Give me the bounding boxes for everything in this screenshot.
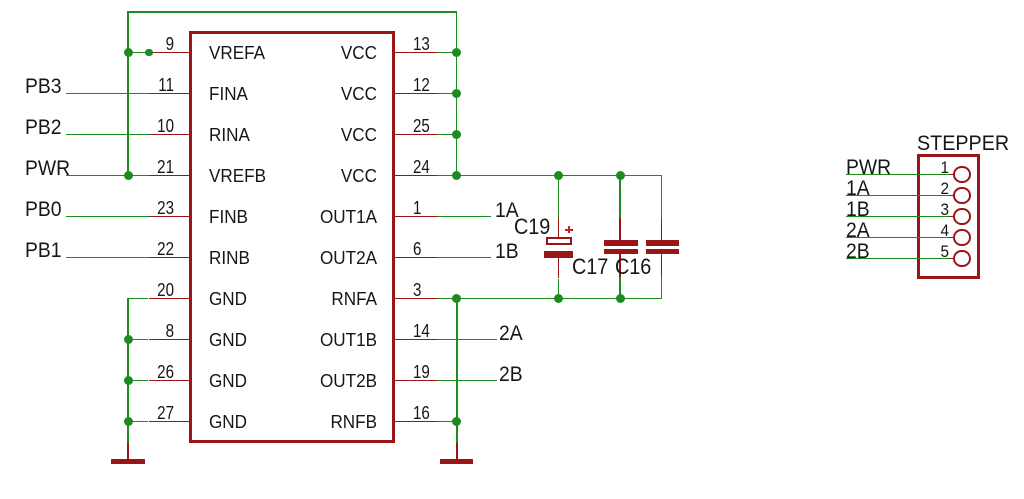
wire PWR to pin21 [66, 175, 149, 177]
stepper pin stub 1 [949, 174, 954, 176]
wire RNF vertical [456, 298, 458, 443]
stepper wire 1B [846, 216, 949, 218]
pin 23 (FINB) stub [149, 216, 191, 218]
stepper pin stub 5 [949, 258, 954, 260]
junction VCC at C19 [554, 171, 563, 180]
stepper net label 2A [846, 220, 870, 241]
stepper wire PWR [846, 174, 949, 176]
label C16 [615, 256, 651, 278]
C19 plus sign [565, 229, 573, 231]
stepper net label PWR [846, 157, 891, 178]
wire pin25 to vertical [437, 134, 457, 136]
pin name VCC [301, 44, 377, 62]
wire C19 bottom [558, 279, 560, 299]
stepper pin number 3 [877, 201, 949, 218]
wire pin8 to bus [128, 339, 148, 341]
pin 13 (VCC) stub [394, 52, 437, 54]
wire PWR top horizontal [127, 11, 457, 13]
net label 1A [495, 200, 519, 221]
junction GND pin27 [124, 417, 133, 426]
IC U1 box (L6219 driver) [189, 31, 396, 443]
wire pin27 to bus [128, 421, 148, 423]
stepper pin number 1 [877, 159, 949, 176]
stepper wire 2A [846, 237, 949, 239]
stepper pin number 2 [877, 180, 949, 197]
pin name VREFB [209, 167, 266, 185]
junction GND pin8 [124, 335, 133, 344]
stepper net label 2B [846, 241, 870, 262]
wire pin13 to vertical [437, 52, 457, 54]
pin name OUT2B [301, 372, 377, 390]
pin 6 (OUT2A) stub [394, 257, 437, 259]
pin number 19 [413, 363, 430, 381]
pin number 11 [106, 76, 173, 94]
junction RNF at C17 [616, 294, 625, 303]
wire OUT2A [437, 257, 492, 259]
pin 10 (RINA) stub [149, 134, 191, 136]
pin number 3 [413, 281, 421, 299]
pin 9 (VREFA) stub [149, 52, 191, 54]
net label 2B [499, 364, 523, 385]
wire C16 top [661, 175, 663, 218]
pin name RNFB [301, 413, 377, 431]
pin 14 (OUT1B) stub [394, 339, 437, 341]
wire C17 bottom [619, 277, 621, 298]
wire PB2 [66, 134, 149, 136]
pin number 8 [106, 322, 173, 340]
pin number 6 [413, 240, 421, 258]
connector STEPPER box [917, 154, 981, 279]
pin 20 (GND) stub [149, 298, 191, 300]
pin number 10 [106, 117, 173, 135]
ground symbol left [127, 443, 129, 459]
stepper wire 2B [846, 258, 949, 260]
pin number 21 [106, 158, 173, 176]
net label 2A [499, 323, 523, 344]
stepper pin number 5 [877, 243, 949, 260]
junction RNF at C19 [554, 294, 563, 303]
junction VCC pin13 [452, 48, 461, 57]
pin 8 (GND) stub [149, 339, 191, 341]
stepper pin circle 1 [953, 166, 971, 184]
stepper pin circle 3 [953, 208, 971, 226]
junction at pin9/vertical [124, 48, 133, 57]
pin 11 (FINA) stub [149, 93, 191, 95]
stepper pin circle 4 [953, 229, 971, 247]
net label PB1 [25, 240, 62, 261]
junction VCC pin25 [452, 130, 461, 139]
label STEPPER [917, 133, 1009, 154]
wire PB0 [66, 216, 149, 218]
pin 21 (VREFB) stub [149, 175, 191, 177]
junction at pin9 connection [145, 49, 153, 57]
junction VCC at C17 [616, 171, 625, 180]
pin number 14 [413, 322, 430, 340]
wire PWR left vertical [127, 12, 129, 176]
wire C17 top [619, 175, 621, 218]
wire GND vertical bus [127, 298, 129, 443]
pin 12 (VCC) stub [394, 93, 437, 95]
stepper pin circle 2 [953, 187, 971, 205]
net label PB3 [25, 76, 62, 97]
wire OUT2B [437, 380, 498, 382]
pin name FINA [209, 85, 248, 103]
wire RNF rail pin3 [437, 298, 663, 300]
stepper net label 1B [846, 199, 870, 220]
pin name VCC [301, 126, 377, 144]
wire C16 bottom [661, 277, 663, 298]
wire VCC rail pin24 [437, 175, 663, 177]
pin name GND [209, 290, 247, 308]
pin name VCC [301, 85, 377, 103]
pin name GND [209, 372, 247, 390]
pin number 20 [106, 281, 173, 299]
pin 3 (RNFA) stub [394, 298, 437, 300]
label C17 [572, 256, 608, 278]
pin name RNFA [301, 290, 377, 308]
wire RNFB pin16 to vertical [437, 421, 457, 423]
stepper pin number 4 [877, 222, 949, 239]
stepper pin stub 3 [949, 216, 954, 218]
wire OUT1B [437, 339, 498, 341]
pin 25 (VCC) stub [394, 134, 437, 136]
capacitor C19 [558, 217, 560, 237]
pin number 26 [106, 363, 173, 381]
pin number 24 [413, 158, 430, 176]
pin 19 (OUT2B) stub [394, 380, 437, 382]
stepper net label 1A [846, 178, 870, 199]
ground symbol right [456, 443, 458, 459]
pin 26 (GND) stub [149, 380, 191, 382]
pin 27 (GND) stub [149, 421, 191, 423]
wire pin12 to vertical [437, 93, 457, 95]
junction GND pin26 [124, 376, 133, 385]
pin name OUT1B [301, 331, 377, 349]
pin number 27 [106, 404, 173, 422]
wire pin20 to bus [128, 298, 148, 300]
pin name OUT2A [301, 249, 377, 267]
pin number 12 [413, 76, 430, 94]
pin name RINB [209, 249, 250, 267]
wire PB3 [66, 93, 149, 95]
wire pin9 to vertical [128, 52, 148, 54]
wire pin26 to bus [128, 380, 148, 382]
stepper pin circle 5 [953, 250, 971, 268]
net label PB0 [25, 199, 62, 220]
pin name FINB [209, 208, 248, 226]
net label PB2 [25, 117, 62, 138]
net label 1B [495, 241, 519, 262]
wire C19 top [558, 175, 560, 217]
junction VCC pin24 [452, 171, 461, 180]
capacitor C17 [619, 218, 621, 240]
pin name GND [209, 413, 247, 431]
label C19 [514, 216, 550, 238]
pin name VREFA [209, 44, 265, 62]
pin 1 (OUT1A) stub [394, 216, 437, 218]
pin number 25 [413, 117, 430, 135]
pin number 9 [106, 35, 173, 53]
pin name GND [209, 331, 247, 349]
pin 22 (RINB) stub [149, 257, 191, 259]
net label PWR [25, 158, 70, 179]
stepper pin stub 4 [949, 237, 954, 239]
stepper pin stub 2 [949, 195, 954, 197]
junction VCC pin12 [452, 89, 461, 98]
pin number 1 [413, 199, 421, 217]
pin number 16 [413, 404, 430, 422]
pin name RINA [209, 126, 250, 144]
pin number 22 [106, 240, 173, 258]
junction RNF pin3 [452, 294, 461, 303]
pin number 23 [106, 199, 173, 217]
pin name VCC [301, 167, 377, 185]
wire PB1 [66, 257, 149, 259]
capacitor C16 [661, 218, 663, 240]
stepper wire 1A [846, 195, 949, 197]
wire VCC right vertical [456, 12, 458, 176]
pin number 13 [413, 35, 430, 53]
pin 16 (RNFB) stub [394, 421, 437, 423]
junction RNF pin16 [452, 417, 461, 426]
pin 24 (VCC) stub [394, 175, 437, 177]
junction PWR at pin21 [124, 171, 133, 180]
wire OUT1A [437, 216, 492, 218]
pin name OUT1A [301, 208, 377, 226]
